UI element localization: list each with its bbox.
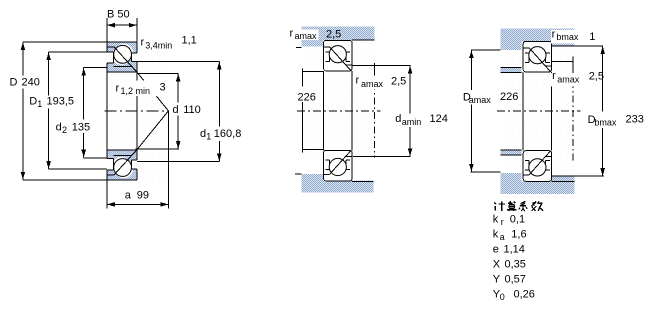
svg-text:226: 226	[500, 91, 518, 103]
dimension D 240	[23, 42, 107, 180]
svg-text:110: 110	[183, 104, 201, 116]
bearing outline section fig3 top	[523, 41, 551, 72]
svg-text:0: 0	[500, 292, 505, 302]
svg-text:amax: amax	[557, 74, 580, 84]
svg-text:D: D	[29, 96, 37, 108]
svg-text:0,35: 0,35	[505, 259, 526, 271]
svg-text:r: r	[501, 217, 504, 227]
svg-text:d: d	[173, 104, 179, 116]
bearing face lines fig1	[107, 72, 137, 209]
hatch zone fig3	[502, 48, 575, 174]
shaft ledge right	[552, 177, 575, 182]
svg-text:124: 124	[430, 113, 448, 125]
svg-text:3: 3	[160, 82, 166, 94]
svg-text:240: 240	[22, 77, 40, 89]
char ji	[494, 201, 505, 211]
svg-text:k: k	[493, 214, 499, 226]
housing band	[302, 27, 375, 41]
dimension a 99	[107, 203, 169, 205]
svg-text:bmax: bmax	[594, 118, 617, 128]
svg-text:226: 226	[298, 92, 316, 104]
svg-text:r: r	[116, 83, 120, 95]
svg-text:d: d	[395, 113, 401, 125]
spacer strip bottom	[501, 150, 522, 155]
svg-text:B 50: B 50	[107, 9, 130, 21]
svg-text:1,6: 1,6	[511, 229, 526, 241]
svg-text:0,57: 0,57	[505, 274, 526, 286]
svg-text:amax: amax	[469, 95, 492, 105]
contact angle lines fig1	[114, 47, 168, 175]
dimension d1 160,8	[137, 61, 220, 161]
hatch zone fig1	[107, 42, 169, 184]
svg-text:3,4min: 3,4min	[145, 41, 172, 51]
svg-text:r: r	[290, 28, 294, 40]
svg-text:e: e	[493, 244, 499, 256]
label boxes fig2	[288, 29, 319, 40]
Dbmax 233 dim fig3	[602, 46, 604, 176]
bearing outline section fig2 top	[324, 40, 352, 71]
svg-text:r: r	[141, 37, 145, 49]
svg-text:a: a	[500, 232, 505, 242]
face connector lines fig3	[523, 72, 551, 151]
svg-text:amin: amin	[402, 117, 422, 127]
svg-text:0,1: 0,1	[510, 214, 525, 226]
svg-text:1: 1	[37, 99, 42, 109]
housing band	[501, 29, 575, 42]
Damax 226 dim fig2	[296, 48, 324, 153]
spacer strip top	[501, 67, 522, 72]
housing ledge right	[552, 42, 575, 47]
svg-text:k: k	[493, 229, 499, 241]
svg-text:0,26: 0,26	[514, 289, 535, 301]
svg-text:193,5: 193,5	[47, 96, 75, 108]
housing shoulder	[302, 27, 323, 47]
char xi	[519, 201, 527, 211]
svg-text:r: r	[552, 29, 556, 41]
char suan	[507, 201, 517, 211]
ra construct fig3	[552, 57, 573, 67]
damin 124 dim fig2	[352, 63, 411, 156]
shaft shoulder col	[302, 174, 324, 192]
face connector lines fig2	[324, 71, 352, 150]
svg-text:160,8: 160,8	[214, 128, 242, 140]
svg-text:2: 2	[62, 125, 67, 135]
centerline fig3	[497, 110, 581, 112]
svg-text:1,2 min: 1,2 min	[121, 86, 151, 96]
svg-text:Y: Y	[493, 274, 501, 286]
svg-text:1,14: 1,14	[504, 244, 525, 256]
svg-text:r: r	[356, 74, 360, 86]
svg-text:d: d	[200, 128, 206, 140]
svg-text:bmax: bmax	[556, 32, 579, 42]
svg-text:X: X	[493, 259, 501, 271]
centerline fig1	[105, 110, 169, 112]
hatch zone fig2	[303, 47, 375, 157]
svg-text:D: D	[10, 77, 18, 89]
svg-text:1: 1	[589, 31, 595, 43]
shaft band	[324, 180, 374, 192]
char shu	[531, 201, 543, 211]
svg-text:2,5: 2,5	[589, 71, 604, 83]
housing shoulder col	[501, 29, 522, 50]
apex extension to a-dim	[167, 111, 169, 209]
label white boxes fig1	[138, 33, 178, 49]
svg-text:r: r	[552, 70, 556, 82]
bearing ring section top (blue)	[106, 42, 137, 72]
Damax 226 dim fig3	[471, 50, 501, 172]
svg-text:a: a	[125, 190, 132, 202]
dimension D1 193,5	[49, 52, 107, 169]
shaft band	[501, 181, 575, 194]
label boxes fig3	[551, 30, 581, 43]
shaft shoulder col	[501, 173, 522, 194]
svg-text:amax: amax	[361, 79, 384, 89]
svg-text:2,5: 2,5	[326, 28, 341, 40]
dimension d2 135	[84, 68, 107, 158]
fake bold CJK title 计算系数 (drawn strokes)	[494, 201, 543, 211]
svg-text:99: 99	[137, 190, 149, 202]
svg-text:135: 135	[72, 122, 90, 134]
svg-text:2,5: 2,5	[391, 76, 406, 88]
dimension d 110	[136, 73, 179, 148]
centerline fig2	[297, 110, 381, 112]
dimension B	[107, 18, 137, 42]
svg-text:amax: amax	[295, 31, 318, 41]
svg-text:d: d	[56, 122, 62, 134]
svg-text:233: 233	[626, 114, 644, 126]
svg-text:1: 1	[206, 132, 211, 142]
svg-text:1,1: 1,1	[182, 35, 197, 47]
